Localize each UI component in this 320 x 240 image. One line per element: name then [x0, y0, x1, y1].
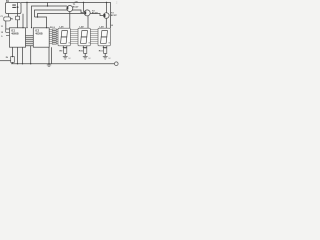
text labels — [1, 1, 117, 59]
resistor R11 chain under LD3 — [103, 46, 107, 48]
junction dots ground rail — [17, 63, 18, 64]
wire x23 — [22, 14, 24, 28]
transistor T1 — [67, 6, 73, 12]
wire C1 to IC1 pin — [5, 21, 7, 29]
wires IC2 ground pins — [49, 47, 52, 64]
display LD2 — [78, 28, 90, 46]
wire T1 collector — [69, 12, 71, 29]
wire bus line b — [35, 10, 85, 17]
wire IC1 ground pin — [17, 47, 19, 64]
segment resistors R2-R8 — [49, 29, 58, 44]
svg-text:4026B: 4026B — [35, 32, 43, 35]
wire L to IC2 top — [35, 17, 47, 28]
wire T2 collector — [87, 16, 89, 28]
ground under LD2 — [83, 56, 88, 59]
capacitor C1 lead from box — [8, 14, 10, 17]
capacitor C1 — [4, 17, 11, 21]
wire rail drop to line a — [47, 3, 49, 7]
resistor R10 chain under LD2 — [83, 46, 87, 48]
transistor T3 — [106, 3, 108, 13]
junction dot rail x83.5 — [83, 2, 84, 3]
IC1 left pin stubs — [6, 29, 10, 36]
ground under LD1 — [63, 56, 68, 59]
wire T3 collector — [105, 18, 107, 28]
IC U1 — [10, 28, 26, 47]
terminal circle — [115, 62, 119, 66]
svg-text:14: 14 — [111, 24, 113, 27]
wire x27 — [26, 3, 28, 28]
wire dropper between ICs — [30, 46, 32, 64]
display LD1 — [58, 28, 70, 46]
wire bus line a — [32, 6, 67, 28]
resistor R12 — [11, 57, 15, 63]
resistor R1 — [16, 16, 20, 20]
junction dot y17 — [37, 16, 38, 17]
node A junction dot — [17, 6, 19, 8]
ground below rail — [47, 65, 51, 66]
display LD3 — [98, 28, 110, 46]
junction dot rail x27 — [26, 2, 27, 3]
IC U2 — [33, 28, 49, 47]
svg-text:BC327: BC327 — [111, 15, 117, 17]
svg-text:BC327: BC327 — [73, 7, 79, 9]
input wire bottom left — [0, 60, 11, 62]
+5V rail — [21, 3, 111, 29]
cascade wires IC1 to IC2 — [26, 36, 34, 46]
junction dot rail x106.5 — [106, 2, 107, 3]
junction dot line a — [47, 5, 48, 6]
svg-text:BC327: BC327 — [92, 13, 98, 15]
crystal X1 — [12, 5, 16, 9]
ground rail bottom — [11, 63, 114, 65]
svg-text:C1: C1 — [1, 16, 3, 18]
ground under LD3 — [103, 56, 108, 59]
junction dots IC tops — [22, 27, 23, 28]
svg-text:4060B: 4060B — [11, 32, 19, 35]
junction dot R12 top — [12, 56, 13, 57]
resistor R9 chain under LD1 — [63, 46, 67, 48]
oscillator box B1 — [6, 3, 22, 14]
wire vertical through box — [17, 3, 19, 17]
transistor T2 — [84, 3, 86, 13]
wire R1 to IC1 top — [17, 20, 19, 28]
wire IC1 pin to rail — [22, 47, 24, 64]
wire bus line c — [38, 14, 104, 18]
inter display bus wires — [70, 30, 98, 44]
